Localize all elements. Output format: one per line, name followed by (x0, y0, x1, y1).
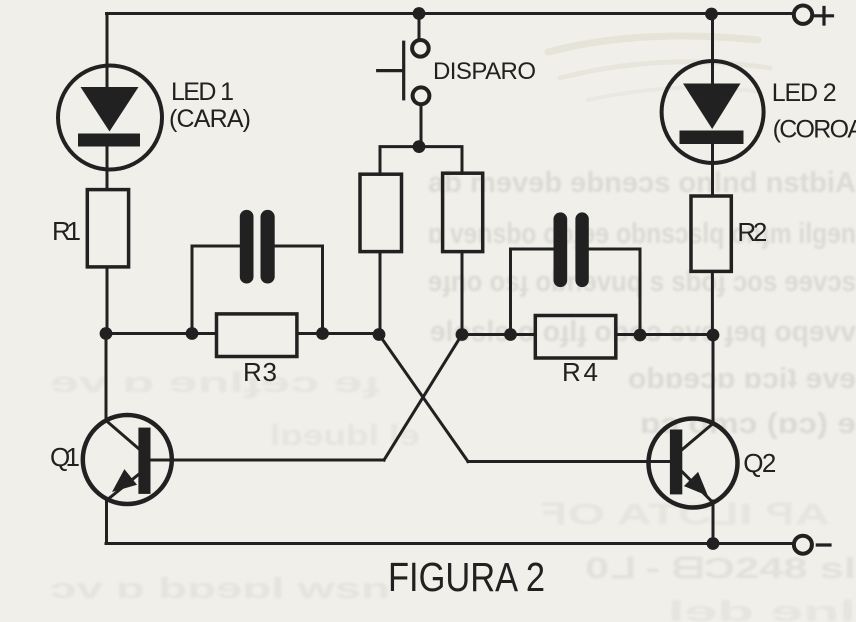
svg-text:ɒ vɘnsbo oɒɟɘɘ obnsɔslq onɟ: ɒ vɘnsbo oɒɟɘɘ obnsɔslq onɟm ilgɘn (428, 218, 856, 250)
LED1 (58, 66, 162, 170)
resistor (right trigger) (443, 173, 483, 251)
junction node: C2 left (504, 328, 517, 341)
wire: cross diagonal from right row to Q1 base (384, 335, 462, 461)
scan smudges (548, 36, 770, 100)
terminal + (positive supply) (794, 6, 833, 25)
svg-text:R2: R2 (737, 217, 767, 247)
wire: R2 to right base row (711, 271, 714, 335)
top rail wire (+V) (107, 12, 794, 15)
svg-text:R4: R4 (562, 357, 598, 387)
wire: LED2 cathode to R2 (711, 60, 714, 196)
resistor R1 (87, 190, 128, 267)
junction node: rail/button (413, 7, 426, 20)
left base row wire (106, 332, 379, 335)
transistor Q2 (649, 419, 738, 508)
junction node: Q2 emitter / bottom rail (707, 537, 720, 550)
wire: right rail down to Q2 collector (712, 335, 715, 422)
resistor R2 (691, 196, 731, 271)
bottom rail wire (0V) (106, 542, 794, 545)
terminal - (negative supply) (794, 536, 830, 554)
junction node: right row / cross wire (456, 328, 469, 341)
junction node: C1 left (186, 327, 199, 340)
junction node: C2 right (634, 329, 647, 342)
wire: Q2 base horizontal (468, 460, 670, 463)
resistor (left trigger) (360, 174, 402, 251)
junction node: trigger split (413, 140, 426, 153)
wire: LED1 cathode to R1 (106, 64, 109, 190)
svg-text:ɘv ɒ ɘnlɟɘɔ ɘɟ: ɘv ɒ ɘnlɟɘɔ ɘɟ (50, 367, 381, 399)
junction node: left rail / base row (100, 327, 113, 340)
resistor R4 (535, 316, 616, 359)
svg-text:(COROA): (COROA) (773, 116, 856, 144)
svg-text:0⅃ - ᗺƆ248 sl: 0⅃ - ᗺƆ248 sl (585, 553, 856, 585)
capacitor C1 (left) (192, 210, 323, 334)
svg-text:(CARA): (CARA) (169, 105, 251, 133)
svg-text:Q1: Q1 (50, 442, 80, 472)
wire: left rail down to Q1 collector (105, 334, 108, 418)
svg-text:DISPARO: DISPARO (433, 58, 537, 85)
left rail wire: rail to LED1 (106, 14, 109, 65)
LED2 (662, 61, 764, 163)
wire: trigger junction branches (380, 147, 462, 175)
junction node: right rail / base row (707, 329, 720, 342)
wire: left trigger resistor to left base row (379, 252, 382, 335)
svg-text:LED 2: LED 2 (772, 79, 837, 107)
svg-text:ab mɘvɘb ɘbnɘɔs onlnd nstbi: ab mɘvɘb ɘbnɘɔs onlnd nstbiA (428, 167, 856, 199)
junction node: left row / cross wire (373, 328, 386, 341)
ghost bleed-through text (decorative scan artifact) (50, 167, 856, 622)
wire: cross diagonal from left row to Q2 base (379, 335, 468, 462)
wire: Q2 emitter to bottom rail (712, 501, 715, 544)
pushbutton DISPARO (378, 14, 430, 147)
wire: R1 to left base row (106, 267, 109, 334)
wire: Q1 emitter to bottom rail (105, 500, 108, 544)
right rail wire: rail to LED2 (711, 14, 714, 60)
svg-text:Q2: Q2 (743, 448, 776, 478)
svg-text:R1: R1 (52, 216, 81, 246)
wire: right trigger resistor to right base row (461, 252, 464, 335)
transistor Q1 (83, 415, 172, 504)
svg-text:LED 1: LED 1 (171, 78, 234, 106)
svg-text:obɒɘɔɒ ɒɔiʇ ɘvɘ: obɒɘɔɒ ɒɔiʇ ɘvɘ (628, 363, 856, 395)
right base row wire (462, 333, 713, 336)
capacitor C2 (right) (511, 212, 641, 335)
junction node: rail/LED2 (705, 8, 718, 21)
svg-text:ꟻO ATC⅃I ꟼA: ꟻO ATC⅃I ꟼA (540, 499, 830, 531)
svg-text:FIGURA 2: FIGURA 2 (388, 554, 545, 600)
svg-text:ɘɟno osɟ obnɘvuq s sboɟ ɔo: ɘɟno osɟ obnɘvuq s sboɟ ɔos ɘɘvɔs (428, 266, 856, 298)
svg-text:lɘb ɘnl: lɘb ɘnl (668, 596, 856, 622)
svg-text:ɔv ɒ bɒɘɒl wsn: ɔv ɒ bɒɘɒl wsn (50, 573, 390, 605)
junction node: C1 right (316, 327, 329, 340)
svg-text:R3: R3 (243, 357, 277, 387)
wire: Q1 base horizontal (151, 459, 385, 462)
resistor R3 (217, 314, 297, 357)
